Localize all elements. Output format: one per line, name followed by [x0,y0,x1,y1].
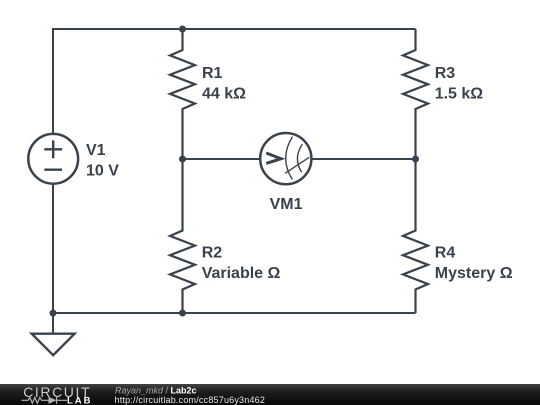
svg-text:LAB: LAB [67,396,93,405]
svg-text:44 kΩ: 44 kΩ [202,86,246,103]
svg-text:R2: R2 [202,245,223,262]
svg-text:1.5 kΩ: 1.5 kΩ [435,86,484,103]
svg-text:R3: R3 [435,65,456,82]
svg-text:R4: R4 [435,245,456,262]
svg-text:Mystery Ω: Mystery Ω [435,265,513,282]
svg-text:VM1: VM1 [270,196,303,213]
svg-text:V1: V1 [86,142,106,159]
svg-text:http://circuitlab.com/cc857u6y: http://circuitlab.com/cc857u6y3n462 [115,395,266,405]
svg-text:Variable Ω: Variable Ω [202,265,281,282]
svg-text:10 V: 10 V [86,163,119,180]
svg-text:R1: R1 [202,65,223,82]
